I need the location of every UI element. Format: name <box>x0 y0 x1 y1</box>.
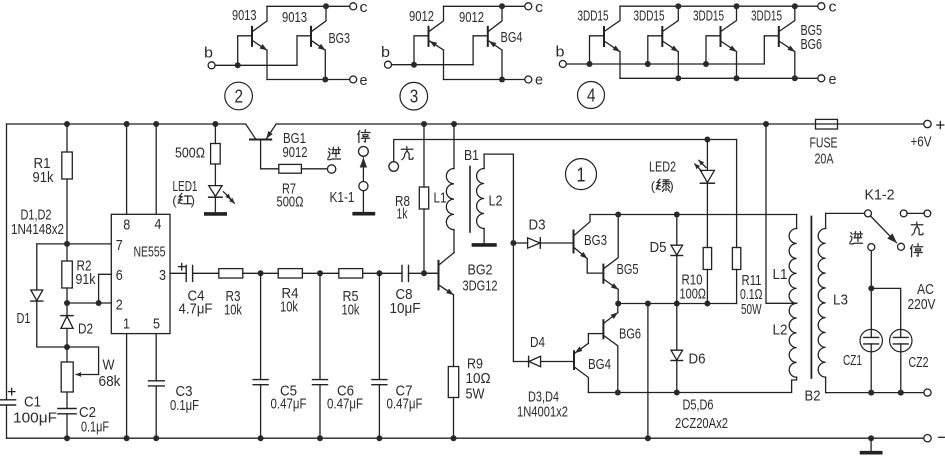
junction <box>376 270 382 276</box>
svg-text:LED2: LED2 <box>649 159 676 176</box>
svg-text:b: b <box>381 44 390 61</box>
svg-text:c: c <box>829 0 838 16</box>
svg-text:0.47μF: 0.47μF <box>271 396 307 413</box>
diode D4 1N4001 <box>513 361 528 363</box>
svg-text:b: b <box>204 45 213 62</box>
svg-text:(: ( <box>172 193 177 208</box>
wire base bus module 4 <box>566 36 778 64</box>
transistor 9013 #2 <box>310 27 312 46</box>
wire midpoint rail <box>618 303 736 305</box>
junction R8 bottom <box>421 270 427 276</box>
capacitor C4 4.7uF <box>186 265 192 281</box>
svg-text:10k: 10k <box>342 302 360 319</box>
svg-text:D4: D4 <box>530 334 545 351</box>
svg-text:220V: 220V <box>908 296 936 313</box>
svg-text:1: 1 <box>123 316 130 333</box>
terminal + output <box>924 120 931 127</box>
junction <box>317 270 323 276</box>
resistor R8 1k <box>423 124 425 273</box>
diode D6 2CZ20A <box>676 304 678 351</box>
svg-text:9013: 9013 <box>232 7 257 24</box>
wire pin5 lead <box>155 334 157 439</box>
svg-text:BG2: BG2 <box>468 262 493 279</box>
terminal c (module 3) <box>525 3 532 10</box>
switch K1-1 common pole <box>359 182 368 191</box>
socket CZ1 <box>860 329 882 351</box>
resistor R2 91k <box>62 261 73 288</box>
transistor BG4 <box>573 351 575 369</box>
switch K1-2 common pole <box>865 210 872 217</box>
wire pin1 ground <box>126 334 128 439</box>
svg-text:c: c <box>535 0 544 16</box>
svg-text:D5,D6: D5,D6 <box>683 397 714 414</box>
terminal e (module 3) <box>525 76 532 83</box>
wire bottom rail <box>7 437 924 439</box>
circled number 4 <box>578 82 605 109</box>
LED1 red indicator <box>209 186 222 197</box>
fuse FUSE 20A <box>816 119 838 129</box>
svg-text:100Ω: 100Ω <box>680 285 707 302</box>
svg-text:B2: B2 <box>805 387 821 404</box>
svg-text:L1: L1 <box>434 189 447 206</box>
junction D3 node <box>510 240 516 246</box>
svg-text:L2: L2 <box>489 192 503 209</box>
svg-text:BG3: BG3 <box>329 30 351 47</box>
transformer B2 winding L3 <box>825 213 827 228</box>
resistor R11 0.1 ohm 50W <box>736 140 738 304</box>
transistor BG2 3DG12 <box>438 261 440 290</box>
wire left edge column <box>6 124 8 438</box>
IC NE555 <box>111 214 170 333</box>
transistor BG1 9012 (series switch in +6V rail) <box>246 124 256 139</box>
svg-text:K1-2: K1-2 <box>865 187 895 204</box>
wire emitter rail module 4 <box>620 77 818 79</box>
svg-text:e: e <box>360 72 368 89</box>
transformer B2 winding L1 <box>796 215 798 229</box>
svg-text:0.47μF: 0.47μF <box>327 396 363 413</box>
svg-text:BG5: BG5 <box>617 261 639 278</box>
svg-text:D6: D6 <box>689 350 706 367</box>
svg-text:4: 4 <box>587 86 596 106</box>
svg-text:3DD15: 3DD15 <box>751 8 782 25</box>
terminal b (module 3) <box>385 61 392 68</box>
resistor R1 91k <box>66 124 68 261</box>
wire base lead Q1 <box>414 36 428 65</box>
svg-text:0.47μF: 0.47μF <box>387 396 423 413</box>
wire L3 top to switch K1-2 <box>826 212 865 214</box>
svg-text:C1: C1 <box>24 393 41 410</box>
svg-text:CZ1: CZ1 <box>843 352 862 369</box>
svg-text:BG4: BG4 <box>501 29 523 46</box>
svg-text:NE555: NE555 <box>134 243 166 260</box>
terminal c (module 4) <box>818 3 825 10</box>
svg-text:W: W <box>103 356 116 373</box>
svg-text:3DG12: 3DG12 <box>463 277 498 294</box>
svg-text:K1-1: K1-1 <box>330 189 355 206</box>
svg-text:8: 8 <box>123 216 130 233</box>
svg-text:7: 7 <box>116 237 123 254</box>
svg-text:L2: L2 <box>773 321 788 338</box>
svg-text:4.7μF: 4.7μF <box>179 301 213 318</box>
diode D3 1N4001 <box>513 242 527 244</box>
wire AC output rail <box>826 392 924 394</box>
wire pin2 line <box>67 302 111 304</box>
svg-text:1k: 1k <box>397 206 408 223</box>
svg-text:0.1μF: 0.1μF <box>170 397 199 414</box>
terminal c (module 2) <box>350 3 357 10</box>
svg-text:6: 6 <box>116 267 123 284</box>
svg-text:+6V: +6V <box>911 134 932 151</box>
terminal e (module 2) <box>350 76 357 83</box>
svg-text:(: ( <box>651 179 656 194</box>
svg-text:5: 5 <box>153 316 160 333</box>
switch K1-2 aux contacts <box>900 210 907 217</box>
transistor BG6 <box>602 320 604 338</box>
transistor 3DD15 #2 <box>648 36 662 64</box>
svg-text:500Ω: 500Ω <box>277 193 304 210</box>
transistor 3DD15 #1 <box>590 36 604 64</box>
svg-text:3DD15: 3DD15 <box>634 8 665 25</box>
svg-text:9012: 9012 <box>409 8 434 25</box>
svg-text:c: c <box>360 0 369 16</box>
wire midpoint to bottom rail <box>647 304 649 439</box>
ground under B1 L2 <box>473 243 495 247</box>
diode D1 <box>36 244 38 290</box>
svg-text:50W: 50W <box>741 301 762 318</box>
resistor R10 100 ohm <box>703 248 711 270</box>
svg-text:9012: 9012 <box>283 144 308 161</box>
svg-text:): ) <box>191 193 195 208</box>
wire base bus module 2 <box>215 64 297 66</box>
capacitor C3 0.1uF <box>149 381 165 386</box>
svg-text:B1: B1 <box>464 147 479 164</box>
switch K1-1 contact ni (invert) <box>327 165 335 173</box>
svg-text:D2: D2 <box>78 321 93 338</box>
svg-text:BG6: BG6 <box>619 325 641 342</box>
svg-text:68k: 68k <box>99 373 121 390</box>
wire base lead Q2 <box>297 36 310 66</box>
svg-text:L3: L3 <box>833 291 848 308</box>
wire L2 top to diode column <box>484 154 513 361</box>
switch K1-1 lever <box>362 158 364 181</box>
svg-text:e: e <box>829 71 837 88</box>
capacitor C2 0.1uF <box>58 409 76 414</box>
svg-text:5W: 5W <box>466 385 486 402</box>
oscillator output chain: pin3 to C4 <box>170 272 186 274</box>
svg-text:500Ω: 500Ω <box>175 144 205 161</box>
wire lower rail (B2 primary bottom) <box>588 377 796 392</box>
svg-text:BG4: BG4 <box>588 356 611 373</box>
terminal e (module 4) <box>818 75 825 82</box>
svg-text:100μF: 100μF <box>13 410 57 427</box>
terminal AC output <box>924 389 931 396</box>
switch K1-1 contact chong (charge) <box>389 162 399 172</box>
svg-text:10μF: 10μF <box>390 300 421 317</box>
capacitor C6 0.47uF <box>319 273 321 438</box>
wire base bus module 3 <box>392 64 474 66</box>
svg-text:b: b <box>556 44 565 61</box>
junction midpoint node <box>615 301 621 307</box>
terminal b (module 2) <box>208 62 215 69</box>
transistor 9013 #1 <box>251 27 253 46</box>
svg-text:D5: D5 <box>650 239 667 256</box>
switch K1-2 contact charge/stop <box>898 243 905 250</box>
svg-text:FUSE: FUSE <box>810 135 838 152</box>
svg-text:2CZ20Ax2: 2CZ20Ax2 <box>675 415 728 432</box>
transformer B1 winding L2 <box>483 154 485 168</box>
svg-text:BG6: BG6 <box>801 36 823 53</box>
svg-text:L1: L1 <box>773 266 788 283</box>
wire collector rail module 3 <box>444 5 525 7</box>
transformer B2 winding L2 <box>789 303 796 377</box>
diode D5 2CZ20A <box>676 215 678 246</box>
junction <box>258 270 264 276</box>
resistor R9 10 ohm 5W <box>453 295 455 438</box>
svg-text:CZ2: CZ2 <box>909 354 929 371</box>
diode D2 <box>66 303 68 315</box>
svg-text:D1: D1 <box>17 310 31 327</box>
svg-text:0.1μF: 0.1μF <box>81 418 109 435</box>
wire pin8 supply <box>126 124 128 214</box>
svg-text:3: 3 <box>159 267 166 284</box>
junction dots on top rail <box>64 121 70 127</box>
switch K1-2 contact ni (invert) <box>868 244 875 251</box>
transformer B2 core <box>810 217 812 379</box>
switch K1-2 lever <box>871 216 897 243</box>
wire collector rail module 2 <box>267 5 350 7</box>
ground under LED1 <box>206 212 225 216</box>
wire pin6-pin2 strap <box>99 274 112 303</box>
LED2 green indicator <box>706 140 708 171</box>
junction pin2/6 node <box>64 300 70 306</box>
resistor R5 10k <box>339 269 363 278</box>
wire collector rail (B2 primary top) <box>590 214 797 216</box>
wire base lead Q2 <box>473 36 487 65</box>
svg-text:3: 3 <box>410 87 419 107</box>
junction dots on bottom rail <box>64 435 70 441</box>
svg-text:9013: 9013 <box>282 9 307 26</box>
svg-text:1N4001x2: 1N4001x2 <box>517 403 568 420</box>
svg-text:91k: 91k <box>33 169 54 186</box>
wire +6V top rail <box>7 123 924 125</box>
transistor 3DD15 #4 <box>778 27 780 46</box>
switch K1-1 contact ting (stop) <box>359 147 369 157</box>
wire emitter rail module 3 <box>444 79 525 81</box>
junction <box>411 62 417 68</box>
wire +6V feed to B2 centre tap <box>766 124 797 303</box>
svg-text:20A: 20A <box>815 151 834 168</box>
svg-text:2: 2 <box>116 297 123 314</box>
wire inverter output to sockets <box>870 251 872 338</box>
svg-text:BG3: BG3 <box>584 232 607 249</box>
transistor BG5 <box>602 265 604 283</box>
svg-text:1N4148x2: 1N4148x2 <box>11 221 64 238</box>
svg-text:10k: 10k <box>224 302 242 319</box>
wire charge line to R11/LED2 <box>394 140 737 162</box>
junction <box>235 62 241 68</box>
transistor BG3 <box>573 231 575 253</box>
wire collector rail module 4 <box>620 5 818 7</box>
junction W node <box>64 344 70 350</box>
transistor 9012 #1 <box>428 27 430 46</box>
svg-text:3DD15: 3DD15 <box>693 8 724 25</box>
svg-text:e: e <box>535 72 543 89</box>
svg-text:D3: D3 <box>529 216 546 233</box>
transistor 9012 #2 <box>487 27 489 46</box>
wire emitter rail module 2 <box>267 79 350 81</box>
capacitor C7 0.47uF <box>378 273 380 438</box>
transformer B1 core <box>469 167 471 233</box>
wire pin7 line <box>37 243 112 245</box>
transistor 3DD15 #3 <box>706 36 720 64</box>
circled number 1 <box>566 159 597 190</box>
svg-text:10k: 10k <box>280 299 298 316</box>
ground at bottom rail <box>870 438 872 451</box>
ground under K1-1 <box>354 212 373 216</box>
wire base lead Q1 <box>238 36 251 66</box>
potentiometer W 68k <box>66 347 68 408</box>
wire pin4 supply <box>155 124 157 214</box>
svg-text:2: 2 <box>235 87 244 107</box>
svg-text:9012: 9012 <box>459 9 484 26</box>
svg-text:4: 4 <box>154 216 161 233</box>
circled number 3 <box>400 82 428 110</box>
svg-text:91k: 91k <box>76 271 96 288</box>
socket CZ2 <box>890 329 912 351</box>
svg-text:3DD15: 3DD15 <box>578 8 609 25</box>
terminal - output <box>924 435 931 442</box>
capacitor C1 100uF <box>0 400 16 405</box>
transformer B1 winding L1 <box>453 124 455 169</box>
svg-text:): ) <box>669 179 673 194</box>
capacitor C5 0.47uF <box>260 273 262 438</box>
capacitor C8 10uF <box>402 265 409 281</box>
resistor R3 10k <box>219 269 243 278</box>
terminal b (module 4) <box>559 61 566 68</box>
circled number 2 <box>225 82 253 110</box>
resistor R7 500 ohm <box>279 164 302 173</box>
resistor R4 10k <box>278 269 302 278</box>
resistor 500 ohm (LED1 series) <box>214 124 216 186</box>
svg-text:1: 1 <box>577 165 586 187</box>
